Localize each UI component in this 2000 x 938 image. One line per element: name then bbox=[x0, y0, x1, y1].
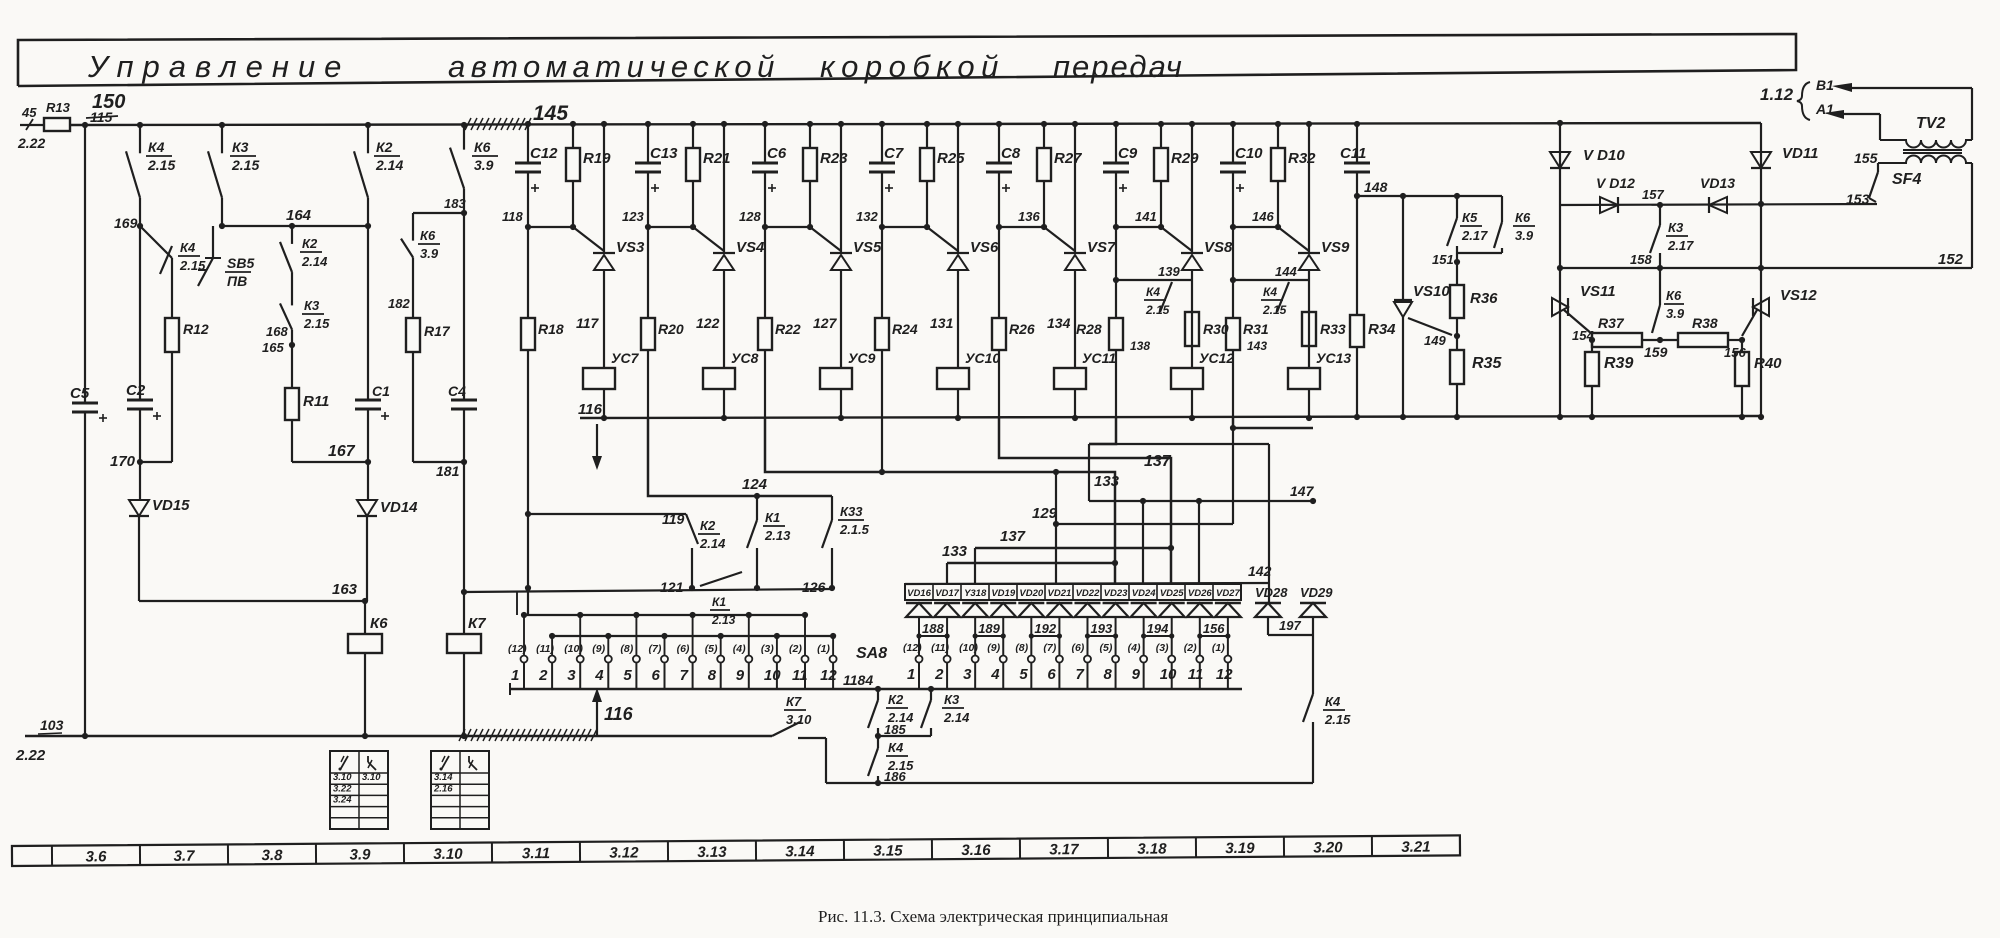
svg-text:(1): (1) bbox=[817, 643, 830, 655]
svg-text:V D10: V D10 bbox=[1583, 147, 1625, 164]
svg-text:R12: R12 bbox=[183, 321, 209, 337]
svg-text:2.22: 2.22 bbox=[15, 747, 46, 764]
svg-text:3.10: 3.10 bbox=[786, 712, 812, 727]
svg-text:3.17: 3.17 bbox=[1049, 841, 1079, 858]
svg-text:C7: C7 bbox=[884, 145, 904, 162]
svg-text:123: 123 bbox=[622, 209, 644, 224]
svg-text:3.14: 3.14 bbox=[785, 843, 815, 860]
svg-text:R35: R35 bbox=[1472, 355, 1502, 372]
svg-text:TV2: TV2 bbox=[1916, 115, 1945, 132]
svg-text:2.13: 2.13 bbox=[764, 528, 791, 543]
svg-text:143: 143 bbox=[1247, 339, 1267, 353]
svg-text:3.12: 3.12 bbox=[609, 844, 639, 861]
svg-text:(3): (3) bbox=[761, 643, 774, 655]
svg-text:R38: R38 bbox=[1692, 315, 1718, 331]
svg-text:R40: R40 bbox=[1754, 355, 1782, 372]
svg-text:142: 142 bbox=[1248, 563, 1272, 579]
svg-text:2.16: 2.16 bbox=[433, 783, 453, 794]
svg-text:VS10: VS10 bbox=[1413, 283, 1450, 300]
svg-text:R33: R33 bbox=[1320, 321, 1346, 337]
svg-text:151: 151 bbox=[1432, 252, 1454, 267]
svg-text:C10: C10 bbox=[1235, 145, 1263, 162]
svg-text:R22: R22 bbox=[775, 321, 801, 337]
svg-text:3.9: 3.9 bbox=[350, 846, 372, 863]
svg-text:4: 4 bbox=[594, 667, 604, 684]
svg-text:5: 5 bbox=[1019, 666, 1028, 683]
svg-text:(7): (7) bbox=[649, 643, 662, 655]
svg-text:146: 146 bbox=[1252, 209, 1274, 224]
svg-text:К6: К6 bbox=[420, 228, 436, 243]
svg-text:R13: R13 bbox=[46, 100, 71, 115]
svg-text:124: 124 bbox=[742, 476, 768, 493]
svg-text:158: 158 bbox=[1630, 252, 1652, 267]
svg-text:1: 1 bbox=[907, 666, 915, 683]
svg-text:169: 169 bbox=[114, 215, 138, 231]
svg-text:3: 3 bbox=[963, 666, 972, 683]
svg-text:153: 153 bbox=[1846, 191, 1870, 207]
svg-text:45: 45 bbox=[21, 105, 37, 120]
svg-text:119: 119 bbox=[662, 511, 685, 527]
svg-text:C2: C2 bbox=[126, 382, 146, 399]
svg-text:116: 116 bbox=[578, 401, 603, 418]
svg-text:К3: К3 bbox=[944, 692, 960, 707]
svg-text:(12): (12) bbox=[903, 642, 922, 654]
svg-text:К7: К7 bbox=[468, 615, 486, 632]
svg-text:К2: К2 bbox=[302, 236, 318, 251]
svg-text:R32: R32 bbox=[1288, 150, 1316, 167]
svg-text:133: 133 bbox=[942, 543, 968, 560]
svg-text:Управление: Управление bbox=[87, 49, 350, 84]
svg-text:К6: К6 bbox=[474, 139, 491, 155]
svg-text:R18: R18 bbox=[538, 321, 564, 337]
svg-text:R25: R25 bbox=[937, 150, 965, 167]
svg-text:12: 12 bbox=[1216, 666, 1233, 683]
svg-text:193: 193 bbox=[1091, 621, 1113, 636]
svg-text:2: 2 bbox=[934, 666, 944, 683]
svg-text:C6: C6 bbox=[767, 145, 787, 162]
svg-text:SА8: SА8 bbox=[856, 645, 887, 662]
svg-text:R31: R31 bbox=[1243, 321, 1269, 337]
svg-text:К4: К4 bbox=[1325, 694, 1341, 709]
svg-text:3.14: 3.14 bbox=[434, 772, 453, 783]
svg-text:145: 145 bbox=[533, 102, 568, 125]
svg-text:VD29: VD29 bbox=[1300, 585, 1333, 600]
svg-text:188: 188 bbox=[922, 621, 944, 636]
svg-text:Рис. 11.3. Схема электрическ: Рис. 11.3. Схема электрическая принципиа… bbox=[818, 907, 1168, 926]
svg-text:VD22: VD22 bbox=[1076, 588, 1100, 599]
svg-text:185: 185 bbox=[884, 722, 906, 737]
svg-text:3.9: 3.9 bbox=[1515, 228, 1534, 243]
svg-text:автоматической: автоматической bbox=[448, 49, 780, 84]
svg-text:К4: К4 bbox=[1146, 285, 1160, 299]
svg-text:134: 134 bbox=[1047, 315, 1071, 331]
svg-text:УС13: УС13 bbox=[1316, 350, 1351, 366]
svg-text:11: 11 bbox=[1188, 666, 1204, 683]
svg-text:R26: R26 bbox=[1009, 321, 1035, 337]
svg-text:7: 7 bbox=[680, 667, 689, 684]
svg-text:(2): (2) bbox=[1184, 642, 1197, 654]
svg-text:3.20: 3.20 bbox=[1313, 839, 1343, 856]
svg-text:132: 132 bbox=[856, 209, 878, 224]
svg-text:(8): (8) bbox=[620, 643, 633, 655]
svg-text:SB5: SB5 bbox=[227, 255, 254, 271]
svg-text:8: 8 bbox=[708, 667, 717, 684]
svg-text:К6: К6 bbox=[1515, 210, 1531, 225]
svg-text:ПВ: ПВ bbox=[227, 273, 247, 289]
svg-text:R21: R21 bbox=[703, 150, 731, 167]
svg-text:R37: R37 bbox=[1598, 315, 1625, 331]
svg-text:К7: К7 bbox=[786, 694, 802, 709]
svg-text:VS3: VS3 bbox=[616, 239, 645, 256]
svg-text:126: 126 bbox=[802, 579, 826, 595]
svg-text:VD16: VD16 bbox=[907, 588, 931, 599]
svg-text:SF4: SF4 bbox=[1892, 171, 1921, 188]
svg-text:168: 168 bbox=[266, 324, 288, 339]
svg-text:6: 6 bbox=[652, 667, 661, 684]
svg-text:R27: R27 bbox=[1054, 150, 1082, 167]
svg-text:5: 5 bbox=[623, 667, 632, 684]
svg-text:V D12: V D12 bbox=[1596, 175, 1635, 191]
svg-text:141: 141 bbox=[1135, 209, 1157, 224]
svg-text:коробкой: коробкой bbox=[820, 49, 1005, 84]
svg-text:117: 117 bbox=[576, 315, 600, 331]
svg-text:R39: R39 bbox=[1604, 355, 1633, 372]
svg-text:103: 103 bbox=[40, 717, 64, 733]
svg-text:C13: C13 bbox=[650, 145, 678, 162]
svg-text:194: 194 bbox=[1147, 621, 1169, 636]
svg-text:2.15: 2.15 bbox=[1262, 303, 1287, 317]
svg-text:(3): (3) bbox=[1156, 642, 1169, 654]
svg-text:3.6: 3.6 bbox=[86, 848, 108, 865]
svg-text:6: 6 bbox=[1047, 666, 1056, 683]
svg-text:VD28: VD28 bbox=[1255, 585, 1288, 600]
svg-text:R20: R20 bbox=[658, 321, 684, 337]
svg-text:3.24: 3.24 bbox=[333, 795, 352, 806]
svg-text:3.9: 3.9 bbox=[474, 157, 494, 173]
svg-text:159: 159 bbox=[1644, 344, 1668, 360]
svg-text:C1: C1 bbox=[372, 383, 390, 399]
svg-text:К1: К1 bbox=[712, 595, 726, 609]
svg-text:2.17: 2.17 bbox=[1667, 238, 1694, 253]
svg-text:УС11: УС11 bbox=[1082, 350, 1116, 366]
svg-text:2.17: 2.17 bbox=[1461, 228, 1488, 243]
svg-text:144: 144 bbox=[1275, 264, 1297, 279]
svg-text:3.11: 3.11 bbox=[522, 845, 550, 862]
svg-text:127: 127 bbox=[813, 315, 838, 331]
svg-text:(11): (11) bbox=[931, 642, 949, 654]
svg-text:2.14: 2.14 bbox=[301, 254, 328, 269]
svg-text:3.9: 3.9 bbox=[1666, 306, 1685, 321]
svg-text:10: 10 bbox=[764, 667, 781, 684]
svg-text:136: 136 bbox=[1018, 209, 1040, 224]
svg-text:К4: К4 bbox=[180, 240, 196, 255]
svg-text:2.15: 2.15 bbox=[231, 157, 259, 173]
svg-text:К2: К2 bbox=[700, 518, 716, 533]
svg-text:(10): (10) bbox=[564, 643, 583, 655]
svg-text:1184: 1184 bbox=[843, 672, 873, 688]
svg-text:2.15: 2.15 bbox=[1145, 303, 1170, 317]
svg-text:2.15: 2.15 bbox=[303, 316, 330, 331]
svg-text:(1): (1) bbox=[1212, 642, 1225, 654]
svg-text:К4: К4 bbox=[1263, 285, 1277, 299]
svg-text:2.22: 2.22 bbox=[17, 135, 45, 151]
svg-text:R28: R28 bbox=[1076, 321, 1102, 337]
svg-text:К3: К3 bbox=[304, 298, 320, 313]
svg-text:R30: R30 bbox=[1203, 321, 1229, 337]
svg-text:157: 157 bbox=[1642, 187, 1664, 202]
svg-text:К1: К1 bbox=[765, 510, 780, 525]
svg-text:VD13: VD13 bbox=[1700, 175, 1735, 191]
svg-text:170: 170 bbox=[110, 453, 136, 470]
svg-text:137: 137 bbox=[1144, 453, 1172, 470]
svg-text:B1: B1 bbox=[1816, 77, 1834, 93]
svg-text:3.13: 3.13 bbox=[697, 844, 727, 861]
svg-text:VD14: VD14 bbox=[380, 499, 418, 516]
svg-text:VS7: VS7 bbox=[1087, 239, 1116, 256]
svg-text:122: 122 bbox=[696, 315, 720, 331]
svg-text:УС7: УС7 bbox=[611, 350, 640, 366]
svg-text:(2): (2) bbox=[789, 643, 802, 655]
svg-text:7: 7 bbox=[1075, 666, 1084, 683]
svg-text:R24: R24 bbox=[892, 321, 918, 337]
svg-text:К2: К2 bbox=[376, 139, 393, 155]
svg-text:3.16: 3.16 bbox=[961, 842, 991, 859]
svg-text:3.9: 3.9 bbox=[420, 246, 439, 261]
svg-text:1: 1 bbox=[511, 667, 519, 684]
svg-text:(11): (11) bbox=[536, 643, 554, 655]
svg-text:УС8: УС8 bbox=[731, 350, 759, 366]
svg-text:VS8: VS8 bbox=[1204, 239, 1233, 256]
svg-text:3: 3 bbox=[567, 667, 576, 684]
svg-text:192: 192 bbox=[1034, 621, 1056, 636]
svg-text:К4: К4 bbox=[888, 740, 904, 755]
svg-text:148: 148 bbox=[1364, 179, 1388, 195]
svg-text:2.14: 2.14 bbox=[943, 710, 970, 725]
svg-text:R19: R19 bbox=[583, 150, 611, 167]
svg-text:УС12: УС12 bbox=[1199, 350, 1234, 366]
svg-text:2.14: 2.14 bbox=[375, 157, 403, 173]
svg-text:163: 163 bbox=[332, 581, 358, 598]
svg-text:(8): (8) bbox=[1015, 642, 1028, 654]
svg-text:3.22: 3.22 bbox=[333, 783, 352, 794]
svg-text:1.12: 1.12 bbox=[1760, 85, 1794, 104]
svg-text:передач: передач bbox=[1053, 49, 1184, 84]
svg-text:2.1.5: 2.1.5 bbox=[839, 522, 870, 537]
svg-text:VD11: VD11 bbox=[1782, 145, 1818, 162]
svg-text:R29: R29 bbox=[1171, 150, 1199, 167]
svg-text:3.10: 3.10 bbox=[362, 772, 381, 783]
svg-text:2.15: 2.15 bbox=[147, 157, 175, 173]
svg-text:C12: C12 bbox=[530, 145, 558, 162]
svg-text:182: 182 bbox=[388, 296, 410, 311]
svg-text:3.21: 3.21 bbox=[1401, 839, 1430, 856]
svg-text:128: 128 bbox=[739, 209, 761, 224]
svg-text:139: 139 bbox=[1158, 264, 1180, 279]
svg-text:VD21: VD21 bbox=[1048, 588, 1072, 599]
svg-text:(5): (5) bbox=[705, 643, 718, 655]
svg-text:C11: C11 bbox=[1340, 145, 1366, 162]
svg-text:3.10: 3.10 bbox=[333, 772, 352, 783]
svg-text:(10): (10) bbox=[959, 642, 978, 654]
svg-text:(12): (12) bbox=[508, 643, 527, 655]
svg-text:VD25: VD25 bbox=[1160, 588, 1184, 599]
svg-text:197: 197 bbox=[1279, 618, 1301, 633]
svg-text:183: 183 bbox=[444, 196, 466, 211]
svg-text:VD27: VD27 bbox=[1216, 588, 1240, 599]
svg-text:К5: К5 bbox=[1462, 210, 1478, 225]
svg-text:VD17: VD17 bbox=[935, 588, 959, 599]
svg-text:9: 9 bbox=[736, 667, 745, 684]
svg-text:R11: R11 bbox=[303, 393, 329, 410]
svg-text:121: 121 bbox=[660, 579, 684, 595]
svg-text:155: 155 bbox=[1854, 150, 1878, 166]
svg-text:181: 181 bbox=[436, 463, 460, 479]
svg-text:131: 131 bbox=[930, 315, 954, 331]
svg-text:VD20: VD20 bbox=[1019, 588, 1043, 599]
svg-text:167: 167 bbox=[328, 443, 356, 460]
svg-text:C5: C5 bbox=[70, 385, 90, 402]
svg-text:2: 2 bbox=[538, 667, 548, 684]
svg-text:2.14: 2.14 bbox=[699, 536, 726, 551]
svg-text:147: 147 bbox=[1290, 483, 1315, 499]
svg-text:8: 8 bbox=[1104, 666, 1113, 683]
svg-text:(5): (5) bbox=[1100, 642, 1113, 654]
svg-text:137: 137 bbox=[1000, 528, 1026, 545]
svg-text:(6): (6) bbox=[1071, 642, 1084, 654]
svg-text:138: 138 bbox=[1130, 339, 1150, 353]
svg-text:(9): (9) bbox=[987, 642, 1000, 654]
svg-text:10: 10 bbox=[1160, 666, 1177, 683]
svg-text:К4: К4 bbox=[148, 139, 165, 155]
svg-text:УС9: УС9 bbox=[848, 350, 876, 366]
svg-text:156: 156 bbox=[1203, 621, 1225, 636]
svg-text:4: 4 bbox=[990, 666, 1000, 683]
svg-text:VD23: VD23 bbox=[1104, 588, 1128, 599]
svg-text:116: 116 bbox=[604, 704, 634, 724]
svg-text:R36: R36 bbox=[1470, 290, 1498, 307]
svg-text:К3: К3 bbox=[232, 139, 249, 155]
svg-text:C9: C9 bbox=[1118, 145, 1138, 162]
svg-text:3.19: 3.19 bbox=[1225, 840, 1255, 857]
svg-text:VS5: VS5 bbox=[853, 239, 882, 256]
svg-text:3.8: 3.8 bbox=[262, 847, 284, 864]
svg-text:VD15: VD15 bbox=[152, 497, 190, 514]
svg-text:9: 9 bbox=[1132, 666, 1141, 683]
svg-text:118: 118 bbox=[502, 209, 523, 224]
svg-text:VS6: VS6 bbox=[970, 239, 999, 256]
svg-text:3.18: 3.18 bbox=[1137, 841, 1167, 858]
svg-text:К33: К33 bbox=[840, 504, 863, 519]
svg-text:3.15: 3.15 bbox=[873, 842, 903, 859]
svg-text:2.15: 2.15 bbox=[1324, 712, 1351, 727]
svg-text:К3: К3 bbox=[1668, 220, 1684, 235]
svg-text:К6: К6 bbox=[1666, 288, 1682, 303]
svg-text:К2: К2 bbox=[888, 692, 904, 707]
svg-text:VD24: VD24 bbox=[1132, 588, 1156, 599]
svg-text:3.7: 3.7 bbox=[174, 848, 196, 865]
svg-text:(6): (6) bbox=[677, 643, 690, 655]
svg-text:VS11: VS11 bbox=[1580, 283, 1616, 300]
svg-text:133: 133 bbox=[1094, 473, 1120, 490]
svg-text:(9): (9) bbox=[592, 643, 605, 655]
svg-text:12: 12 bbox=[820, 667, 837, 684]
svg-text:R17: R17 bbox=[424, 323, 451, 339]
svg-text:К6: К6 bbox=[370, 615, 388, 632]
svg-text:УС10: УС10 bbox=[965, 350, 1000, 366]
svg-text:(4): (4) bbox=[1128, 642, 1141, 654]
svg-text:149: 149 bbox=[1424, 333, 1446, 348]
svg-text:129: 129 bbox=[1032, 505, 1058, 522]
svg-text:189: 189 bbox=[978, 621, 1000, 636]
svg-text:165: 165 bbox=[262, 340, 284, 355]
svg-text:R23: R23 bbox=[820, 150, 848, 167]
svg-text:VS4: VS4 bbox=[736, 239, 765, 256]
svg-text:152: 152 bbox=[1938, 251, 1964, 268]
svg-text:VS9: VS9 bbox=[1321, 239, 1350, 256]
svg-text:(7): (7) bbox=[1043, 642, 1056, 654]
svg-text:VD19: VD19 bbox=[991, 588, 1015, 599]
svg-text:C4: C4 bbox=[448, 383, 466, 399]
svg-text:3.10: 3.10 bbox=[433, 846, 463, 863]
svg-text:C8: C8 bbox=[1001, 145, 1021, 162]
svg-text:11: 11 bbox=[792, 667, 808, 684]
svg-text:(4): (4) bbox=[733, 643, 746, 655]
svg-text:Y318: Y318 bbox=[964, 588, 987, 599]
svg-text:164: 164 bbox=[286, 207, 312, 224]
svg-text:R34: R34 bbox=[1368, 321, 1396, 338]
svg-text:VD26: VD26 bbox=[1188, 588, 1212, 599]
svg-text:186: 186 bbox=[884, 769, 906, 784]
svg-text:VS12: VS12 bbox=[1780, 287, 1817, 304]
